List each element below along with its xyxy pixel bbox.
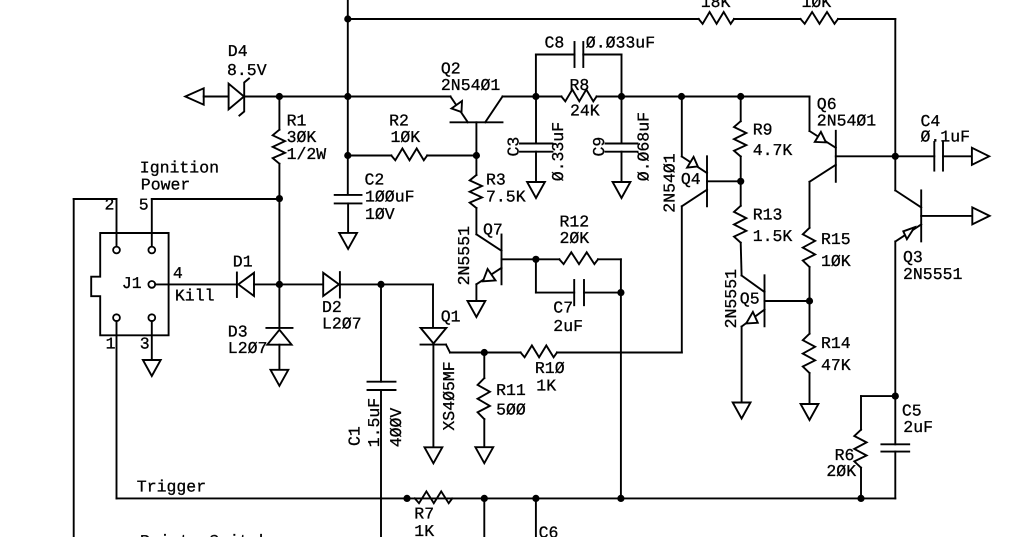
label 100uF	[365, 187, 415, 206]
transistor Q2 collector diagonal	[485, 97, 502, 123]
wire drop below R7 right	[483, 498, 485, 537]
wire C1 top lead	[380, 284, 382, 381]
wire R3 bottom lead	[475, 208, 477, 234]
svg-text:Power: Power	[141, 176, 191, 195]
transistor Q4 emitter diagonal	[682, 157, 707, 174]
connector J1 pin 3 circle	[148, 314, 155, 321]
label 0.033uF	[586, 34, 655, 53]
node Q7 base/R12/C7	[532, 256, 539, 263]
resistor R7 1K	[415, 491, 452, 503]
transistor Q5 emitter diagonal	[742, 310, 765, 327]
label 0.1uF	[921, 127, 971, 146]
input arrow (left) at D4	[185, 88, 203, 104]
wire Q4 collector drop	[681, 206, 683, 352]
wire C7 right lead	[584, 292, 621, 294]
label XS405MF (rotated)	[440, 361, 459, 430]
wire C3 bottom lead	[535, 152, 537, 182]
node C6 top	[532, 495, 539, 502]
transistor Q2 emitter diagonal	[451, 97, 468, 123]
capacitor C7 2uF plates	[574, 280, 584, 305]
transistor Q7 emitter arrow	[483, 269, 496, 281]
label R13	[753, 206, 783, 225]
svg-text:2N54Ø1: 2N54Ø1	[441, 76, 501, 95]
svg-text:L2Ø7: L2Ø7	[322, 314, 362, 333]
svg-text:C3: C3	[505, 137, 524, 157]
wire gate to R11 node	[450, 352, 484, 354]
svg-text:1ØK: 1ØK	[802, 0, 832, 12]
svg-text:1ØK: 1ØK	[821, 252, 851, 271]
label R7	[414, 504, 434, 523]
svg-text:2N5551: 2N5551	[455, 226, 474, 286]
resistor R12 20K	[559, 252, 598, 264]
ground below Q7	[468, 301, 486, 317]
node D1/D2/D3 junction	[276, 281, 283, 288]
ground below pin 3	[143, 360, 161, 376]
label R10	[535, 359, 565, 378]
label 400V (rotated)	[387, 408, 406, 448]
diode D2 bar	[339, 272, 341, 297]
svg-text:1K: 1K	[536, 376, 556, 395]
label Q1	[441, 307, 461, 326]
label C1 (rotated)	[346, 426, 365, 446]
svg-text:XS4Ø5MF: XS4Ø5MF	[440, 361, 459, 430]
wire Q1 cathode drop	[432, 345, 434, 448]
svg-text:2N5551: 2N5551	[722, 269, 741, 329]
connector J1 pin 5 circle	[148, 247, 155, 254]
capacitor C8 0.033uF plates	[575, 42, 584, 67]
wire R9 top lead	[740, 97, 742, 122]
connector J1 pin 4 circle	[148, 281, 155, 288]
wire R12 right lead	[598, 258, 621, 260]
label R14	[821, 334, 851, 353]
svg-text:24K: 24K	[570, 101, 600, 120]
resistor R3 7.5K	[470, 175, 482, 208]
node Q6 base/C4/Q3	[892, 153, 899, 160]
transistor Q3 base lead	[921, 215, 972, 217]
svg-text:2N54Ø1: 2N54Ø1	[817, 112, 877, 131]
label 10K (R2)	[391, 128, 421, 147]
label R11	[496, 381, 526, 400]
wire R1 bottom lead	[278, 164, 280, 199]
svg-text:4ØØV: 4ØØV	[387, 408, 406, 448]
svg-text:2uF: 2uF	[553, 317, 583, 336]
label D1	[233, 253, 253, 272]
label Trigger	[137, 477, 206, 496]
wire C4 right lead	[943, 155, 972, 157]
thyristor Q1 triangle	[421, 328, 447, 344]
label D2	[322, 298, 342, 317]
node Q2 base/R2/R3	[473, 152, 480, 159]
wire rail D4-node to Q2	[279, 96, 450, 98]
wire node to D2	[279, 283, 323, 285]
svg-text:2ØK: 2ØK	[826, 462, 856, 481]
resistor R10 1K	[521, 346, 557, 358]
svg-text:R14: R14	[821, 334, 851, 353]
wire Q1 anode drop	[432, 284, 434, 328]
svg-text:D1: D1	[233, 253, 253, 272]
label 2N5551 (Q7, rotated)	[455, 226, 474, 286]
label bottom text (clipped)	[140, 532, 269, 537]
node C7-drop bottom	[617, 495, 624, 502]
label 4.7K	[753, 141, 793, 160]
transistor Q6 collector diagonal	[810, 165, 836, 182]
label R3	[486, 171, 506, 190]
svg-text:1: 1	[106, 335, 116, 354]
transistor Q4 collector diagonal	[682, 190, 707, 207]
wire R12/C7 right link	[620, 259, 622, 292]
resistor R15 10K	[803, 228, 815, 267]
svg-text:8.5V: 8.5V	[227, 61, 267, 80]
wire D3 bottom lead	[278, 345, 280, 370]
wire D2 to C1 node	[340, 283, 381, 285]
diode D2 triangle	[323, 273, 339, 296]
svg-text:R9: R9	[753, 121, 773, 140]
label C6	[539, 524, 559, 537]
output arrow at C4	[972, 148, 989, 165]
wire D4 to node R1	[244, 96, 279, 98]
svg-text:C9: C9	[590, 137, 609, 157]
wire pin5 riser	[151, 199, 153, 247]
svg-text:1ØØuF: 1ØØuF	[365, 187, 415, 206]
transistor Q2 base lead	[475, 122, 477, 155]
wire C8 top left	[536, 54, 575, 56]
capacitor C1 plates	[368, 382, 396, 390]
wire C5 top lead	[894, 396, 896, 444]
wire pin2 riser	[116, 199, 118, 247]
wire R3 top lead	[475, 156, 477, 176]
svg-text:Ø.Ø68uF: Ø.Ø68uF	[634, 112, 653, 181]
wire Q3 emitter drop	[894, 241, 896, 396]
transistor Q2 base bar	[451, 121, 503, 123]
connector J1 pin 1 circle	[113, 314, 120, 321]
label D4	[228, 42, 248, 61]
label R8	[570, 76, 590, 95]
diode D3 triangle	[267, 330, 291, 345]
label R15	[821, 230, 851, 249]
svg-text:18K: 18K	[701, 0, 731, 12]
wire C9 bottom lead	[621, 152, 623, 182]
node R7 left	[403, 495, 410, 502]
svg-text:C6: C6	[539, 524, 559, 537]
svg-text:1/2W: 1/2W	[287, 145, 327, 164]
label Kill	[175, 287, 215, 306]
wire R6 top lead	[860, 396, 862, 430]
label 2N5551 (Q5, rotated)	[722, 269, 741, 329]
label 2N5401 (Q4, rotated)	[661, 153, 680, 213]
wire C7 left link	[535, 259, 537, 292]
transistor Q4 base bar	[706, 156, 708, 206]
svg-text:1.5uF: 1.5uF	[365, 398, 384, 448]
label 2uF (C7)	[553, 317, 583, 336]
label Power	[141, 176, 191, 195]
label 1.5K	[753, 227, 793, 246]
transistor Q6 base lead	[836, 155, 896, 157]
svg-text:2N54Ø1: 2N54Ø1	[661, 153, 680, 213]
label Q3	[903, 248, 923, 267]
wire C1 bottom lead to edge	[380, 390, 382, 537]
capacitor C8 right riser	[621, 55, 623, 97]
wire pin5 to R1 node	[152, 198, 280, 200]
transistor Q6 emitter arrow	[815, 132, 826, 143]
label L207 (D3)	[228, 339, 268, 358]
label pin 2	[105, 196, 115, 215]
svg-text:C7: C7	[553, 299, 573, 318]
svg-text:R1Ø: R1Ø	[535, 359, 565, 378]
svg-text:47K: 47K	[821, 356, 851, 375]
svg-text:R13: R13	[753, 206, 783, 225]
wire R11 bottom lead	[483, 419, 485, 447]
wire Q5 emitter drop	[741, 327, 743, 403]
label 47K	[821, 356, 851, 375]
svg-text:Kill: Kill	[175, 287, 215, 306]
transistor Q7 base bar	[501, 235, 503, 285]
svg-text:2ØK: 2ØK	[560, 229, 590, 248]
label R2	[389, 111, 409, 130]
label L207 (D2)	[322, 314, 362, 333]
resistor R14 47K	[803, 334, 815, 373]
capacitor C4 0.1uF plates	[934, 142, 943, 171]
label 18K (clipped at top)	[701, 0, 731, 12]
label 1K (R7)	[414, 522, 434, 537]
label pin 1	[106, 335, 116, 354]
wire C8 top right	[583, 54, 621, 56]
wire right vertical drop	[894, 19, 896, 156]
thyristor Q1 gate diagonal	[446, 345, 450, 353]
label 1K (R10)	[536, 376, 556, 395]
label 20K (R12)	[560, 229, 590, 248]
capacitor C5 2uF plates	[881, 444, 909, 451]
capacitor C8 left riser	[535, 55, 537, 97]
label 1.5uF (rotated)	[365, 398, 384, 448]
resistor R6 20K	[854, 430, 866, 468]
wire vertical pin5node to D3	[278, 199, 280, 328]
transistor Q5 collector diagonal	[742, 276, 765, 293]
wire node to Q1 corner	[381, 283, 433, 285]
resistor 10K (top, value cut off)	[801, 12, 839, 24]
connector J1 pin 2 circle	[113, 247, 120, 254]
wire R14 bottom lead	[809, 373, 811, 404]
transistor Q7 emitter diagonal	[476, 268, 501, 285]
wire pin2 top link	[74, 198, 117, 200]
svg-text:R8: R8	[570, 76, 590, 95]
svg-text:7.5K: 7.5K	[486, 188, 526, 207]
label 0.33uF (rotated)	[549, 122, 568, 181]
label C5	[902, 402, 922, 421]
wire pin1 drop to trigger	[116, 321, 118, 498]
wire R6 bottom lead	[860, 468, 862, 499]
svg-text:1ØK: 1ØK	[391, 128, 421, 147]
label 2N5551 (Q3)	[903, 265, 963, 284]
svg-text:J1: J1	[122, 274, 142, 293]
svg-text:3: 3	[140, 335, 150, 354]
transistor Q3 collector diagonal	[895, 190, 921, 207]
node R6 bottom rail	[857, 495, 864, 502]
svg-text:1K: 1K	[414, 522, 434, 537]
transistor Q4 emitter arrow	[687, 157, 698, 168]
svg-text:C1: C1	[346, 426, 365, 446]
wire Q6 collector to R15	[809, 182, 811, 228]
wire between top resistors	[734, 18, 801, 20]
transistor Q7 collector diagonal	[476, 234, 501, 251]
resistor R1 30K 1/2W	[273, 130, 285, 164]
capacitor C2 plates	[335, 195, 362, 204]
node R9 top rail	[737, 93, 744, 100]
wire C5 bottom lead	[894, 452, 896, 499]
wire rail C8node-R8	[536, 96, 562, 98]
diode D1 bar	[236, 273, 238, 298]
label Q7	[483, 220, 503, 239]
wire R9 bottom lead	[740, 157, 742, 206]
label C7	[553, 299, 573, 318]
svg-text:5ØØ: 5ØØ	[496, 401, 526, 420]
diode D4 zener bar	[239, 79, 249, 116]
svg-text:5: 5	[139, 196, 149, 215]
svg-text:Q1: Q1	[441, 307, 461, 326]
svg-text:1ØV: 1ØV	[365, 205, 395, 224]
label Q2	[441, 60, 461, 79]
ground below Q1	[425, 447, 443, 463]
label 0.068uF (rotated)	[634, 112, 653, 181]
capacitor C9 plates	[606, 144, 638, 152]
svg-text:L2Ø7: L2Ø7	[228, 339, 268, 358]
wire D1 to node	[254, 283, 279, 285]
label C2	[365, 171, 385, 190]
svg-text:Q4: Q4	[681, 170, 701, 189]
label 500	[496, 401, 526, 420]
label R6	[835, 446, 855, 465]
wire Q3 collector lead	[894, 156, 896, 190]
label 24K	[570, 101, 600, 120]
label R1	[287, 111, 307, 130]
svg-text:Ø.Ø33uF: Ø.Ø33uF	[586, 34, 655, 53]
svg-text:R7: R7	[414, 504, 434, 523]
wire rail Q2 to C8 node	[503, 96, 536, 98]
wire C6 drop	[535, 498, 537, 537]
node D4/R1 junction	[276, 93, 283, 100]
transistor Q3 base bar	[920, 190, 922, 241]
resistor R8 24K	[561, 90, 596, 102]
label 10V	[365, 205, 395, 224]
node R2 row junction	[344, 152, 351, 159]
label C3 (rotated)	[505, 137, 524, 157]
label Q6	[817, 95, 837, 114]
label 10K (R15)	[821, 252, 851, 271]
node top-T junction	[344, 15, 351, 22]
wire top rail left	[348, 18, 699, 20]
ground below C9	[613, 182, 631, 198]
diode D4 8.5V zener triangle	[229, 84, 244, 110]
ground below Q5	[733, 403, 751, 419]
transistor Q6 base bar	[835, 131, 837, 182]
wire C3 top lead	[535, 97, 537, 144]
node Q4 base/R9/R13	[737, 178, 744, 185]
svg-text:2N5551: 2N5551	[903, 265, 963, 284]
label pin 5	[139, 196, 149, 215]
label Q4	[681, 170, 701, 189]
label R12	[560, 212, 590, 231]
svg-text:Ø.1uF: Ø.1uF	[921, 127, 971, 146]
label 2uF (C5)	[903, 418, 933, 437]
label 1/2W	[287, 145, 327, 164]
resistor R11 500	[478, 378, 490, 419]
node R15/R14/Q5 base	[806, 297, 813, 304]
wire R10 to Q4 collector	[557, 352, 682, 354]
thyristor Q1 cathode bar	[421, 344, 447, 346]
label pin 3	[140, 335, 150, 354]
transistor Q3 emitter diagonal	[896, 224, 922, 241]
capacitor C3 plates	[520, 144, 553, 152]
node Q4 emitter rail	[678, 93, 685, 100]
svg-text:Points Switch: Points Switch	[140, 532, 269, 537]
resistor R2 10K	[391, 149, 427, 161]
wire node to R10	[484, 352, 520, 354]
wire pin3 drop	[151, 321, 153, 360]
wire top stub into node	[347, 0, 349, 19]
label 2N5401 (Q6)	[817, 112, 877, 131]
connector J1 outline	[91, 233, 168, 335]
label C8	[545, 34, 565, 53]
transistor Q7 base lead	[502, 258, 536, 260]
svg-text:4: 4	[173, 264, 183, 283]
transistor Q6 emitter diagonal	[810, 131, 836, 148]
resistor R13 1.5K	[734, 206, 746, 243]
ground below R11	[475, 447, 493, 463]
wire top rail right	[838, 18, 895, 20]
label R9	[753, 121, 773, 140]
node R1/pin5 junction	[276, 195, 283, 202]
node C5/R6 top	[892, 393, 899, 400]
node rail/C2 vertical	[344, 93, 351, 100]
wire R2 left lead	[348, 155, 392, 157]
diode D1 triangle	[238, 273, 254, 296]
wire main vertical x=348	[347, 19, 349, 195]
node C7/R12 to drop	[617, 289, 624, 296]
svg-text:C8: C8	[545, 34, 565, 53]
wire R15 bottom lead	[809, 267, 811, 334]
wire R6 top link	[861, 395, 895, 397]
wire C2 bottom lead	[347, 203, 349, 233]
transistor Q2 emitter arrow	[452, 101, 463, 112]
label 2N5401 (Q2)	[441, 76, 501, 95]
label D3	[228, 322, 248, 341]
label J1	[122, 274, 142, 293]
wire C4 left lead	[895, 155, 934, 157]
label 7.5K	[486, 188, 526, 207]
label 10K (clipped at top)	[802, 0, 832, 12]
label C9 (rotated)	[590, 137, 609, 157]
wire C9 top lead	[621, 97, 623, 144]
ground below D3	[271, 370, 289, 386]
svg-text:D4: D4	[228, 42, 248, 61]
ground below R14	[801, 404, 819, 420]
label 20K (R6)	[826, 462, 856, 481]
label pin 4	[173, 264, 183, 283]
resistor R9 4.7K	[734, 121, 746, 156]
wire C7 node drop to bottom rail	[620, 293, 622, 499]
wire R11 top lead	[483, 353, 485, 379]
node R7 right	[481, 495, 488, 502]
node D2/C1/Q1	[377, 281, 384, 288]
svg-text:R11: R11	[496, 381, 526, 400]
svg-text:Ø.33uF: Ø.33uF	[549, 122, 568, 181]
label 30K	[287, 128, 317, 147]
ground below C3	[527, 182, 545, 198]
node gate/R11	[481, 349, 488, 356]
wire R1 top lead	[278, 97, 280, 130]
ground below C2	[339, 233, 357, 249]
transistor Q5 emitter arrow	[746, 312, 758, 324]
svg-text:2uF: 2uF	[903, 418, 933, 437]
